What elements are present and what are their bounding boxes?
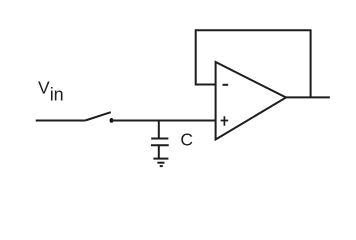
- svg-text:in: in: [50, 85, 64, 105]
- wire node to op-amp + input: [112, 120, 216, 122]
- op-amp plus input symbol: [221, 116, 229, 125]
- op-amp U1 triangle: [216, 62, 286, 140]
- capacitor C top plate: [151, 138, 168, 140]
- svg-text:C: C: [180, 130, 193, 150]
- wire capacitor top stem: [158, 121, 160, 139]
- switch S1 blade: [85, 112, 111, 120]
- node junction dot: [110, 118, 114, 123]
- wire capacitor bottom stem: [158, 145, 160, 158]
- label C: [180, 130, 193, 150]
- capacitor C bottom plate: [151, 144, 169, 146]
- op-amp minus input symbol: [223, 84, 229, 86]
- wire input left segment: [36, 120, 85, 122]
- wire output: [286, 96, 330, 98]
- wire feedback loop (minus input to output): [196, 30, 311, 97]
- label Vin: [38, 77, 64, 104]
- svg-text:V: V: [38, 77, 50, 97]
- ground symbol: [153, 159, 168, 167]
